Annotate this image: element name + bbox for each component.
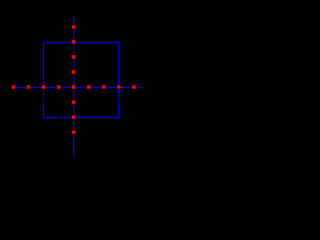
node (-3,0) <box>26 85 31 90</box>
square outline: right edge dash 1 <box>118 97 120 99</box>
node (0,0) origin <box>71 85 76 90</box>
square outline: right edge dash 2 <box>118 100 120 102</box>
square outline: left edge lower part <box>42 103 44 118</box>
square outline: bottom edge short dash <box>60 116 63 118</box>
square outline: top edge short dash <box>68 42 71 44</box>
node (3,0) <box>116 85 121 90</box>
node (0,4) <box>71 24 76 29</box>
node (0,-3) <box>71 130 76 135</box>
square outline: left edge dash 2 <box>42 101 44 102</box>
node (-2,0) <box>41 85 46 90</box>
node (1,0) <box>86 85 91 90</box>
square outline: right edge upper part <box>118 42 120 96</box>
square outline: left edge dash 1 <box>42 97 44 100</box>
node (0,2) <box>71 54 76 59</box>
square outline: bottom edge solid left part <box>43 116 57 118</box>
square outline: right edge lower part <box>118 103 120 119</box>
square outline: top edge left part <box>43 42 66 44</box>
square outline: bottom edge dash 2 <box>64 116 71 118</box>
node (-1,0) <box>56 85 61 90</box>
node (0,-2) <box>71 115 76 120</box>
node (0,-1) <box>71 100 76 105</box>
node (0,1) <box>71 70 76 75</box>
node (2,0) <box>101 85 106 90</box>
node (4,0) <box>131 85 136 90</box>
square outline: bottom edge right part <box>72 116 119 118</box>
wire: horizontal x-axis line <box>13 87 141 89</box>
node (0,3) <box>71 39 76 44</box>
square outline: left edge upper part <box>42 42 44 96</box>
square outline: top edge right part <box>76 42 119 44</box>
wire: vertical y-axis line <box>73 15 75 157</box>
node (-4,0) <box>11 85 16 90</box>
